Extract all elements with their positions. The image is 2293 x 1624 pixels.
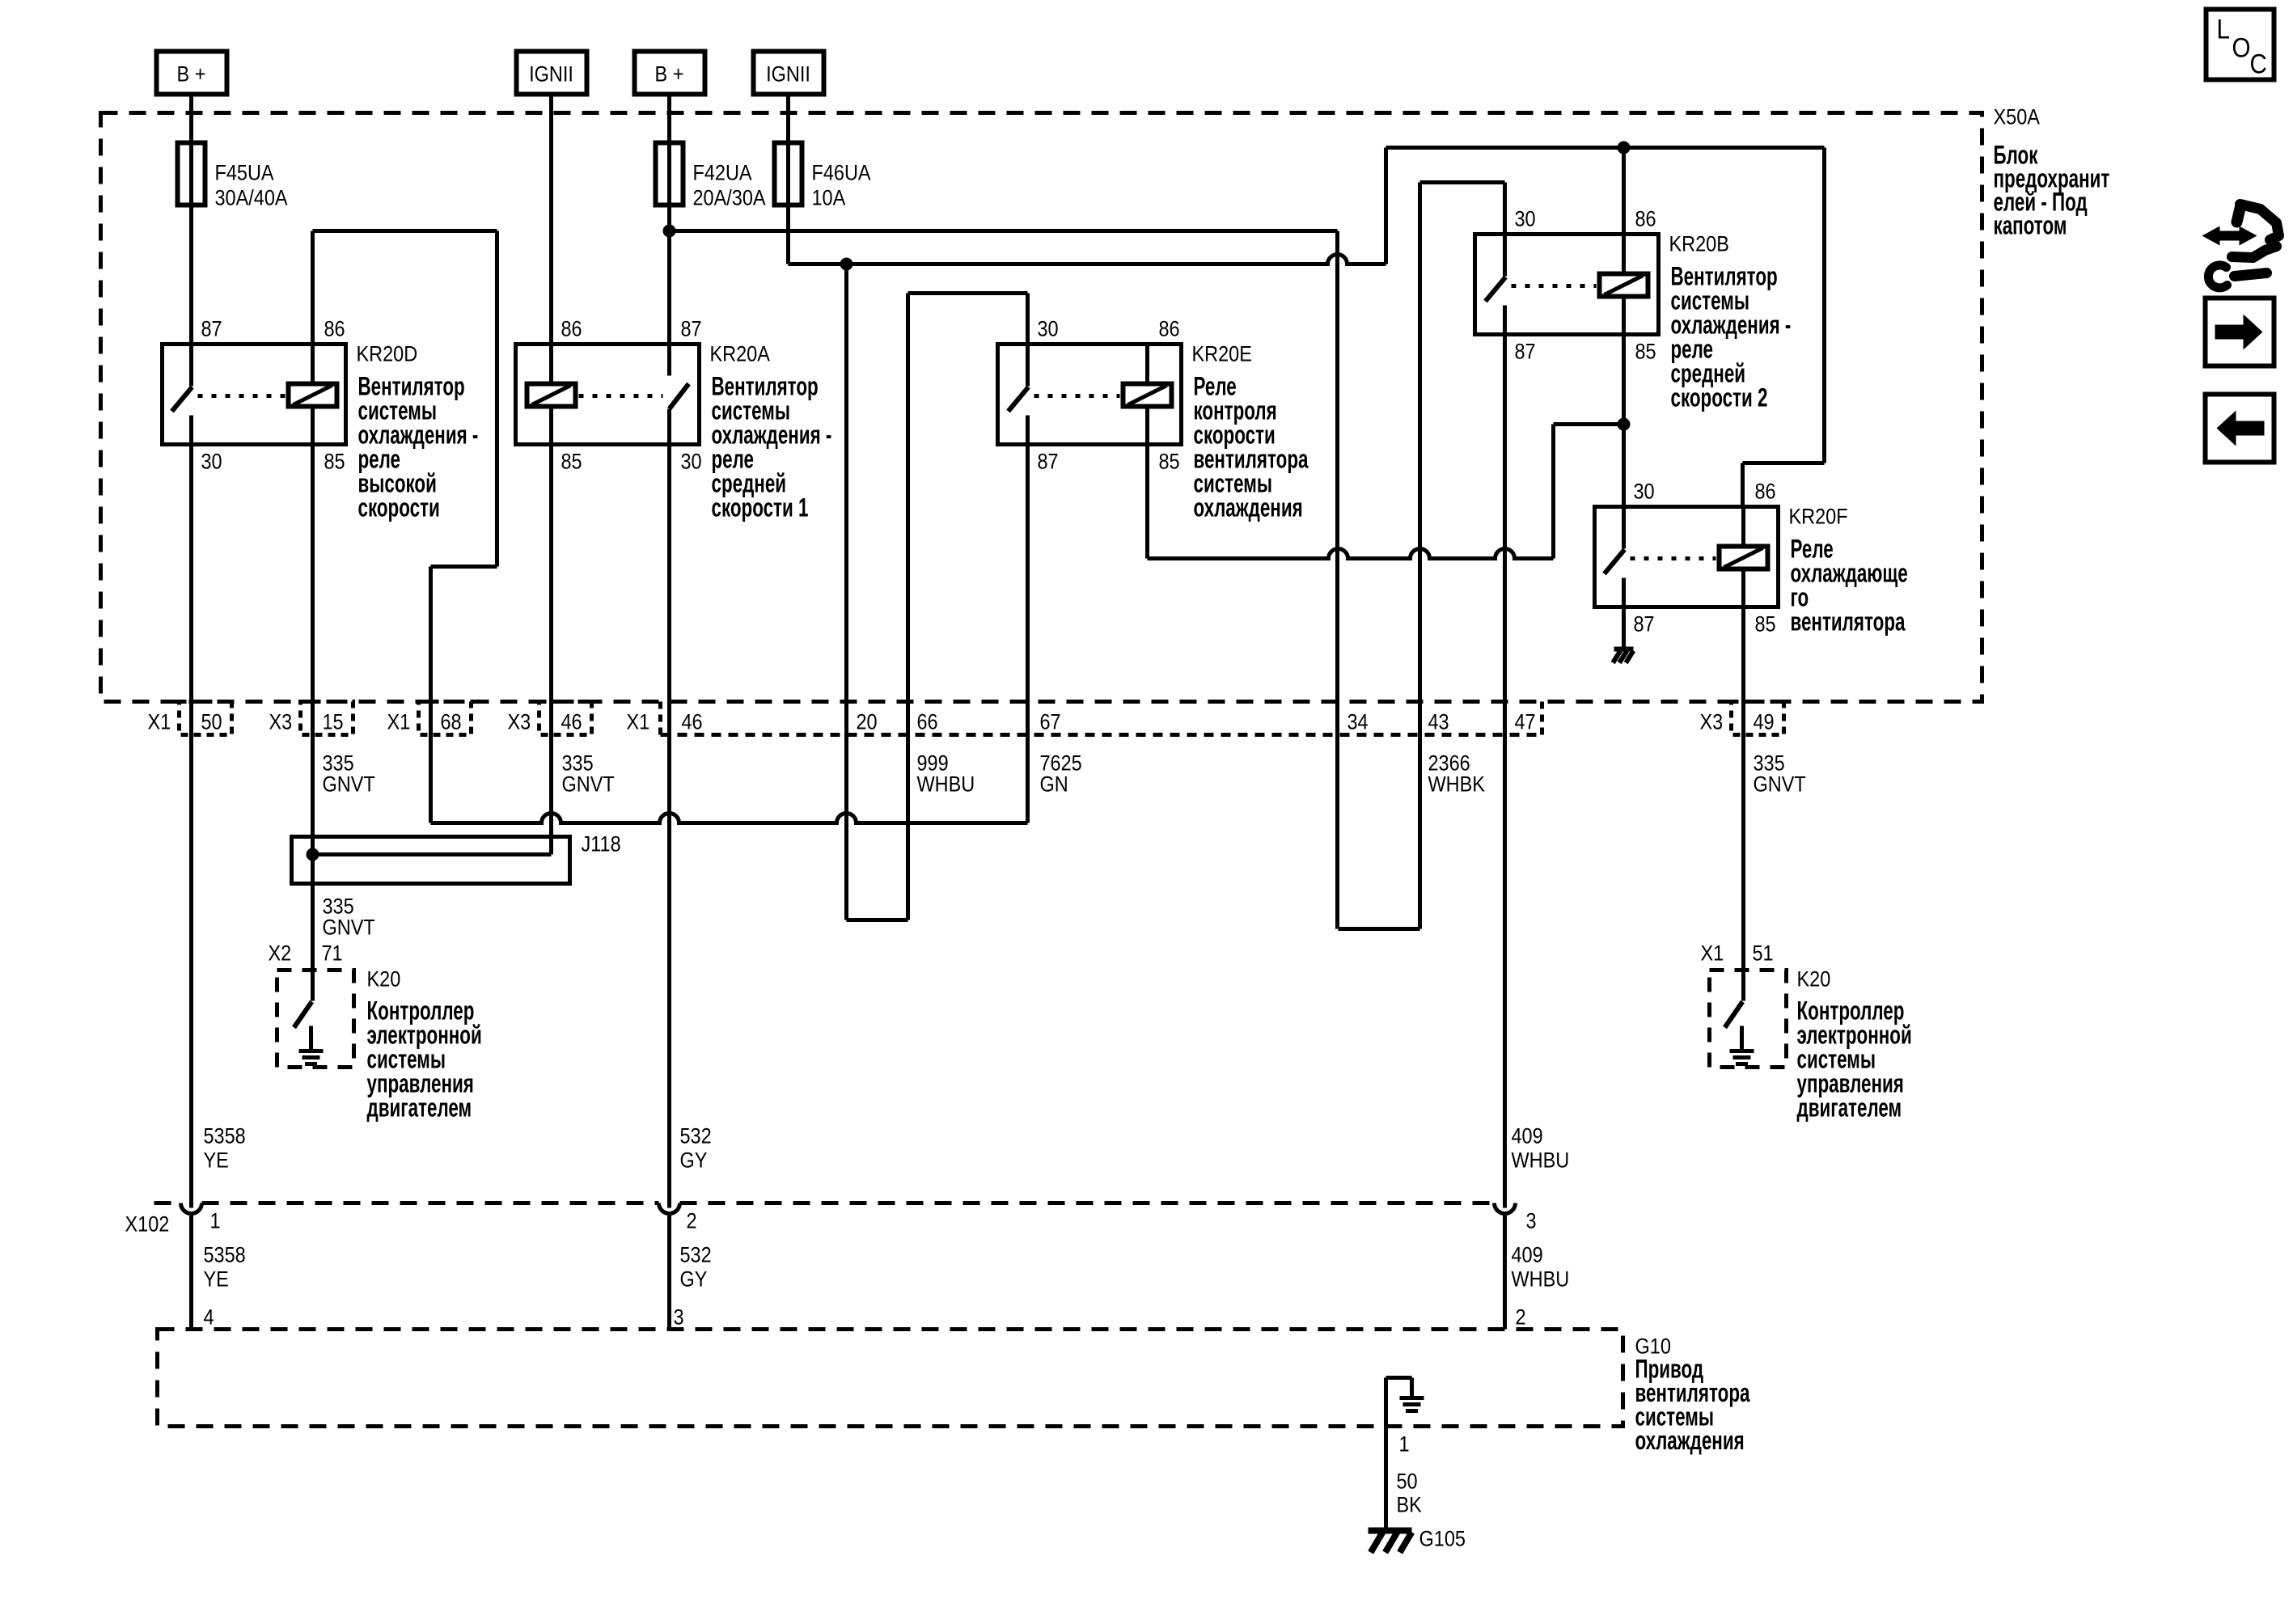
connector pin X1-68 <box>419 702 472 735</box>
svg-text:двигателем: двигателем <box>367 1093 472 1123</box>
relay KR20A cooling fan medium speed relay 1 <box>516 345 700 445</box>
wire from fuse F42UA to KR20A pin 87 <box>667 205 671 345</box>
svg-text:J118: J118 <box>582 832 621 856</box>
svg-text:WHBU: WHBU <box>1512 1267 1570 1292</box>
wire KR20E 85 down <box>1145 445 1149 559</box>
wire KR20D 30 to connector X1-50 down to X102-1 <box>189 445 193 1208</box>
svg-text:532: 532 <box>680 1243 712 1267</box>
wire IGNII-1 feed to KR20A pin 86 <box>549 95 553 345</box>
svg-text:68: 68 <box>441 710 462 734</box>
svg-text:KR20E: KR20E <box>1192 342 1252 366</box>
svg-text:G105: G105 <box>1419 1527 1466 1551</box>
wire KR20B 87 to connector 47 down to X102-3 <box>1503 334 1507 1208</box>
wire KR20E 87 to connector 67 <box>1026 445 1030 823</box>
svg-text:GY: GY <box>680 1148 708 1173</box>
relay KR20B cooling fan medium speed relay 2 <box>1475 235 1659 335</box>
connector bump X102-2 <box>659 1203 680 1214</box>
svg-text:X2: X2 <box>269 941 292 966</box>
svg-text:скорости 1: скорости 1 <box>712 493 809 522</box>
svg-text:4: 4 <box>204 1305 214 1330</box>
svg-text:скорости 2: скорости 2 <box>1671 383 1768 412</box>
svg-text:двигателем: двигателем <box>1797 1093 1902 1123</box>
navigation icon arrow left <box>2206 395 2274 463</box>
wire top feed to KR20B 86 and KR20F 86 <box>1386 146 1825 150</box>
svg-text:GY: GY <box>680 1267 708 1292</box>
svg-text:87: 87 <box>1634 612 1655 636</box>
wire KR20A 85 to connector X3-46 into J118 <box>549 445 553 855</box>
svg-text:KR20A: KR20A <box>710 342 771 366</box>
ECM controller K20 (left) with internal switch to ground <box>277 971 354 1068</box>
svg-text:47: 47 <box>1515 710 1536 734</box>
wire U-link pins 20-66 <box>847 918 908 922</box>
svg-text:86: 86 <box>324 317 345 341</box>
power feed box IGNII (first) <box>517 52 587 95</box>
svg-text:86: 86 <box>1159 317 1180 341</box>
svg-text:15: 15 <box>323 710 344 734</box>
svg-text:67: 67 <box>1040 710 1061 734</box>
wire G10 pin 1 to G105 <box>1384 1378 1388 1531</box>
fuse F45UA with B+ feed wire <box>189 95 193 207</box>
wire bus 68-to-67 with hops <box>431 814 1027 823</box>
svg-text:87: 87 <box>201 317 222 341</box>
wire from fuse F45UA to KR20D pin 87 <box>189 205 193 345</box>
svg-text:WHBU: WHBU <box>1512 1148 1570 1173</box>
svg-text:скорости: скорости <box>358 493 440 522</box>
svg-text:20A/30A: 20A/30A <box>693 186 766 210</box>
svg-text:капотом: капотом <box>1994 211 2067 240</box>
connector pin X3-49 <box>1732 702 1784 735</box>
svg-text:WHBU: WHBU <box>917 772 975 797</box>
svg-text:30: 30 <box>1634 480 1655 504</box>
svg-text:WHBK: WHBK <box>1428 772 1486 797</box>
svg-text:O: O <box>2232 32 2251 63</box>
svg-text:30: 30 <box>1515 207 1536 231</box>
svg-text:1: 1 <box>1399 1432 1410 1457</box>
svg-text:34: 34 <box>1347 710 1369 734</box>
wire down to pin X1-68 <box>429 567 433 823</box>
connector bump X102-3 <box>1495 1203 1516 1214</box>
svg-text:85: 85 <box>324 450 345 474</box>
svg-text:86: 86 <box>1635 207 1656 231</box>
svg-text:30A/40A: 30A/40A <box>215 186 288 210</box>
wire riser to KR20B/KR20F feed <box>1384 148 1388 264</box>
svg-text:46: 46 <box>561 710 582 734</box>
svg-text:5358: 5358 <box>204 1124 246 1148</box>
svg-text:3: 3 <box>674 1305 684 1330</box>
svg-text:409: 409 <box>1512 1124 1543 1148</box>
wire pin 34 riser <box>1335 231 1339 929</box>
fuse block X50A dashed enclosure <box>101 113 1982 702</box>
junction J118 splice <box>307 848 319 861</box>
svg-text:охлаждения: охлаждения <box>1635 1426 1745 1455</box>
svg-text:50: 50 <box>201 710 222 734</box>
svg-text:1: 1 <box>210 1209 221 1233</box>
ECM controller K20 (right) with internal switch to ground <box>1710 971 1787 1068</box>
connector pin X1-50 <box>180 702 232 735</box>
navigation icon route/wrench <box>2208 205 2278 288</box>
wire KR20B 86 from feed <box>1622 148 1626 235</box>
svg-text:K20: K20 <box>367 967 401 992</box>
svg-text:X1: X1 <box>1701 941 1724 966</box>
svg-text:85: 85 <box>561 450 582 474</box>
wire pin 66 riser to KR20E 30 <box>906 294 910 920</box>
LOC legend box <box>2206 10 2274 80</box>
power feed box B+ (second) <box>635 52 705 95</box>
svg-text:10A: 10A <box>812 186 846 210</box>
svg-text:IGNII: IGNII <box>766 62 810 87</box>
junction on B+ branch at KR20A 87 <box>663 225 676 238</box>
wire KR20B 30 feed <box>1420 180 1505 184</box>
svg-text:51: 51 <box>1753 941 1774 966</box>
svg-text:5358: 5358 <box>204 1243 246 1267</box>
wire pin 20 drop <box>844 264 848 920</box>
wire KR20F 87 to ground <box>1622 602 1626 648</box>
svg-text:20: 20 <box>857 710 878 734</box>
junction KR20B 85 / KR20E 85 / KR20F 30 <box>1618 418 1631 431</box>
svg-text:X1: X1 <box>387 710 411 734</box>
svg-text:3: 3 <box>1526 1209 1537 1233</box>
wire IGNII2 branch horizontal <box>789 255 1386 264</box>
connector pin X3-46 <box>539 702 592 735</box>
svg-text:43: 43 <box>1428 710 1449 734</box>
svg-text:2: 2 <box>1516 1305 1526 1330</box>
wire KR20F 85 to connector X3-49 down to K20 X1-51 <box>1741 602 1745 971</box>
wire KR20D 85 to connector X3-15 and J118 <box>311 445 315 971</box>
svg-text:30: 30 <box>1038 317 1059 341</box>
svg-text:F45UA: F45UA <box>215 161 274 185</box>
cooling fan drive G10 dashed box <box>158 1330 1623 1427</box>
svg-text:GNVT: GNVT <box>562 772 615 797</box>
svg-text:X3: X3 <box>508 710 531 734</box>
svg-text:2: 2 <box>687 1209 697 1233</box>
connector pin X3-15 <box>301 702 353 735</box>
power feed box B+ (left) <box>157 52 227 95</box>
svg-text:BK: BK <box>1397 1493 1422 1517</box>
svg-text:87: 87 <box>681 317 702 341</box>
relay KR20D cooling fan high speed relay <box>163 345 346 445</box>
wire KR20D 86 jog up <box>311 231 315 345</box>
svg-text:X102: X102 <box>125 1212 170 1237</box>
relay KR20E cooling fan speed control relay <box>998 345 1182 445</box>
svg-text:K20: K20 <box>1797 967 1831 992</box>
svg-text:71: 71 <box>322 941 343 966</box>
svg-text:C: C <box>2250 49 2267 79</box>
svg-text:вентилятора: вентилятора <box>1791 607 1906 636</box>
chassis ground at KR20F 87 <box>1614 647 1634 652</box>
svg-text:F42UA: F42UA <box>693 161 752 185</box>
svg-text:409: 409 <box>1512 1243 1543 1267</box>
svg-text:охлаждения: охлаждения <box>1194 493 1303 522</box>
svg-text:86: 86 <box>1755 480 1776 504</box>
svg-text:YE: YE <box>204 1148 229 1173</box>
svg-text:X1: X1 <box>148 710 171 734</box>
fuse F46UA <box>786 95 790 207</box>
svg-text:KR20B: KR20B <box>1669 232 1729 256</box>
svg-text:X50A: X50A <box>1994 105 2041 129</box>
svg-text:IGNII: IGNII <box>529 62 573 87</box>
svg-text:KR20F: KR20F <box>1789 505 1848 529</box>
connector X102 dashed line <box>154 1201 181 1205</box>
svg-text:532: 532 <box>680 1124 712 1148</box>
wire from fuse F46UA down <box>786 205 790 264</box>
wire B+ branch to pin 34 riser <box>670 229 1338 233</box>
svg-text:46: 46 <box>682 710 703 734</box>
power feed box IGNII (second) <box>754 52 824 95</box>
svg-text:87: 87 <box>1038 450 1059 474</box>
svg-text:GNVT: GNVT <box>1754 772 1806 797</box>
svg-text:KR20D: KR20D <box>357 342 418 366</box>
svg-text:85: 85 <box>1635 340 1656 364</box>
svg-text:X3: X3 <box>269 710 293 734</box>
svg-text:87: 87 <box>1515 340 1536 364</box>
svg-text:B +: B + <box>177 62 206 87</box>
svg-text:YE: YE <box>204 1267 229 1292</box>
svg-text:30: 30 <box>201 450 222 474</box>
svg-text:GNVT: GNVT <box>323 772 375 797</box>
svg-text:X3: X3 <box>1700 710 1724 734</box>
svg-text:50: 50 <box>1397 1470 1418 1494</box>
svg-text:GNVT: GNVT <box>323 916 375 940</box>
navigation icon arrow right <box>2206 298 2274 366</box>
svg-text:30: 30 <box>681 450 702 474</box>
chassis ground G105 <box>1369 1528 1412 1534</box>
svg-text:49: 49 <box>1754 710 1775 734</box>
wire KR20E 85 to KR20F 30 branch <box>1148 549 1554 559</box>
connector bump X102-1 <box>181 1203 202 1214</box>
connector multi-pin bracket lower edge <box>658 702 662 735</box>
svg-text:GN: GN <box>1040 772 1068 797</box>
wire KR20B 85 to KR20F 30 <box>1622 334 1626 507</box>
svg-text:B +: B + <box>655 62 684 87</box>
wire KR20A 30 to connector X1-46 down to X102-2 <box>667 445 671 1208</box>
svg-text:86: 86 <box>561 317 582 341</box>
svg-text:85: 85 <box>1159 450 1180 474</box>
svg-text:X1: X1 <box>627 710 650 734</box>
internal ground of G10 <box>1386 1376 1412 1380</box>
fuse F42UA <box>667 95 671 207</box>
svg-text:F46UA: F46UA <box>812 161 871 185</box>
relay KR20F cooling fan relay <box>1595 507 1779 607</box>
junction at KR20B 86 <box>1618 142 1631 154</box>
wire pin 46 into J118 <box>549 837 553 855</box>
junction IGNII2 branch at pin 20 wire <box>840 258 853 271</box>
svg-text:L: L <box>2217 14 2230 44</box>
wire U-link pins 34-43 <box>1339 927 1420 931</box>
svg-text:66: 66 <box>917 710 938 734</box>
splice J118 box <box>292 837 570 884</box>
svg-text:85: 85 <box>1755 612 1776 636</box>
